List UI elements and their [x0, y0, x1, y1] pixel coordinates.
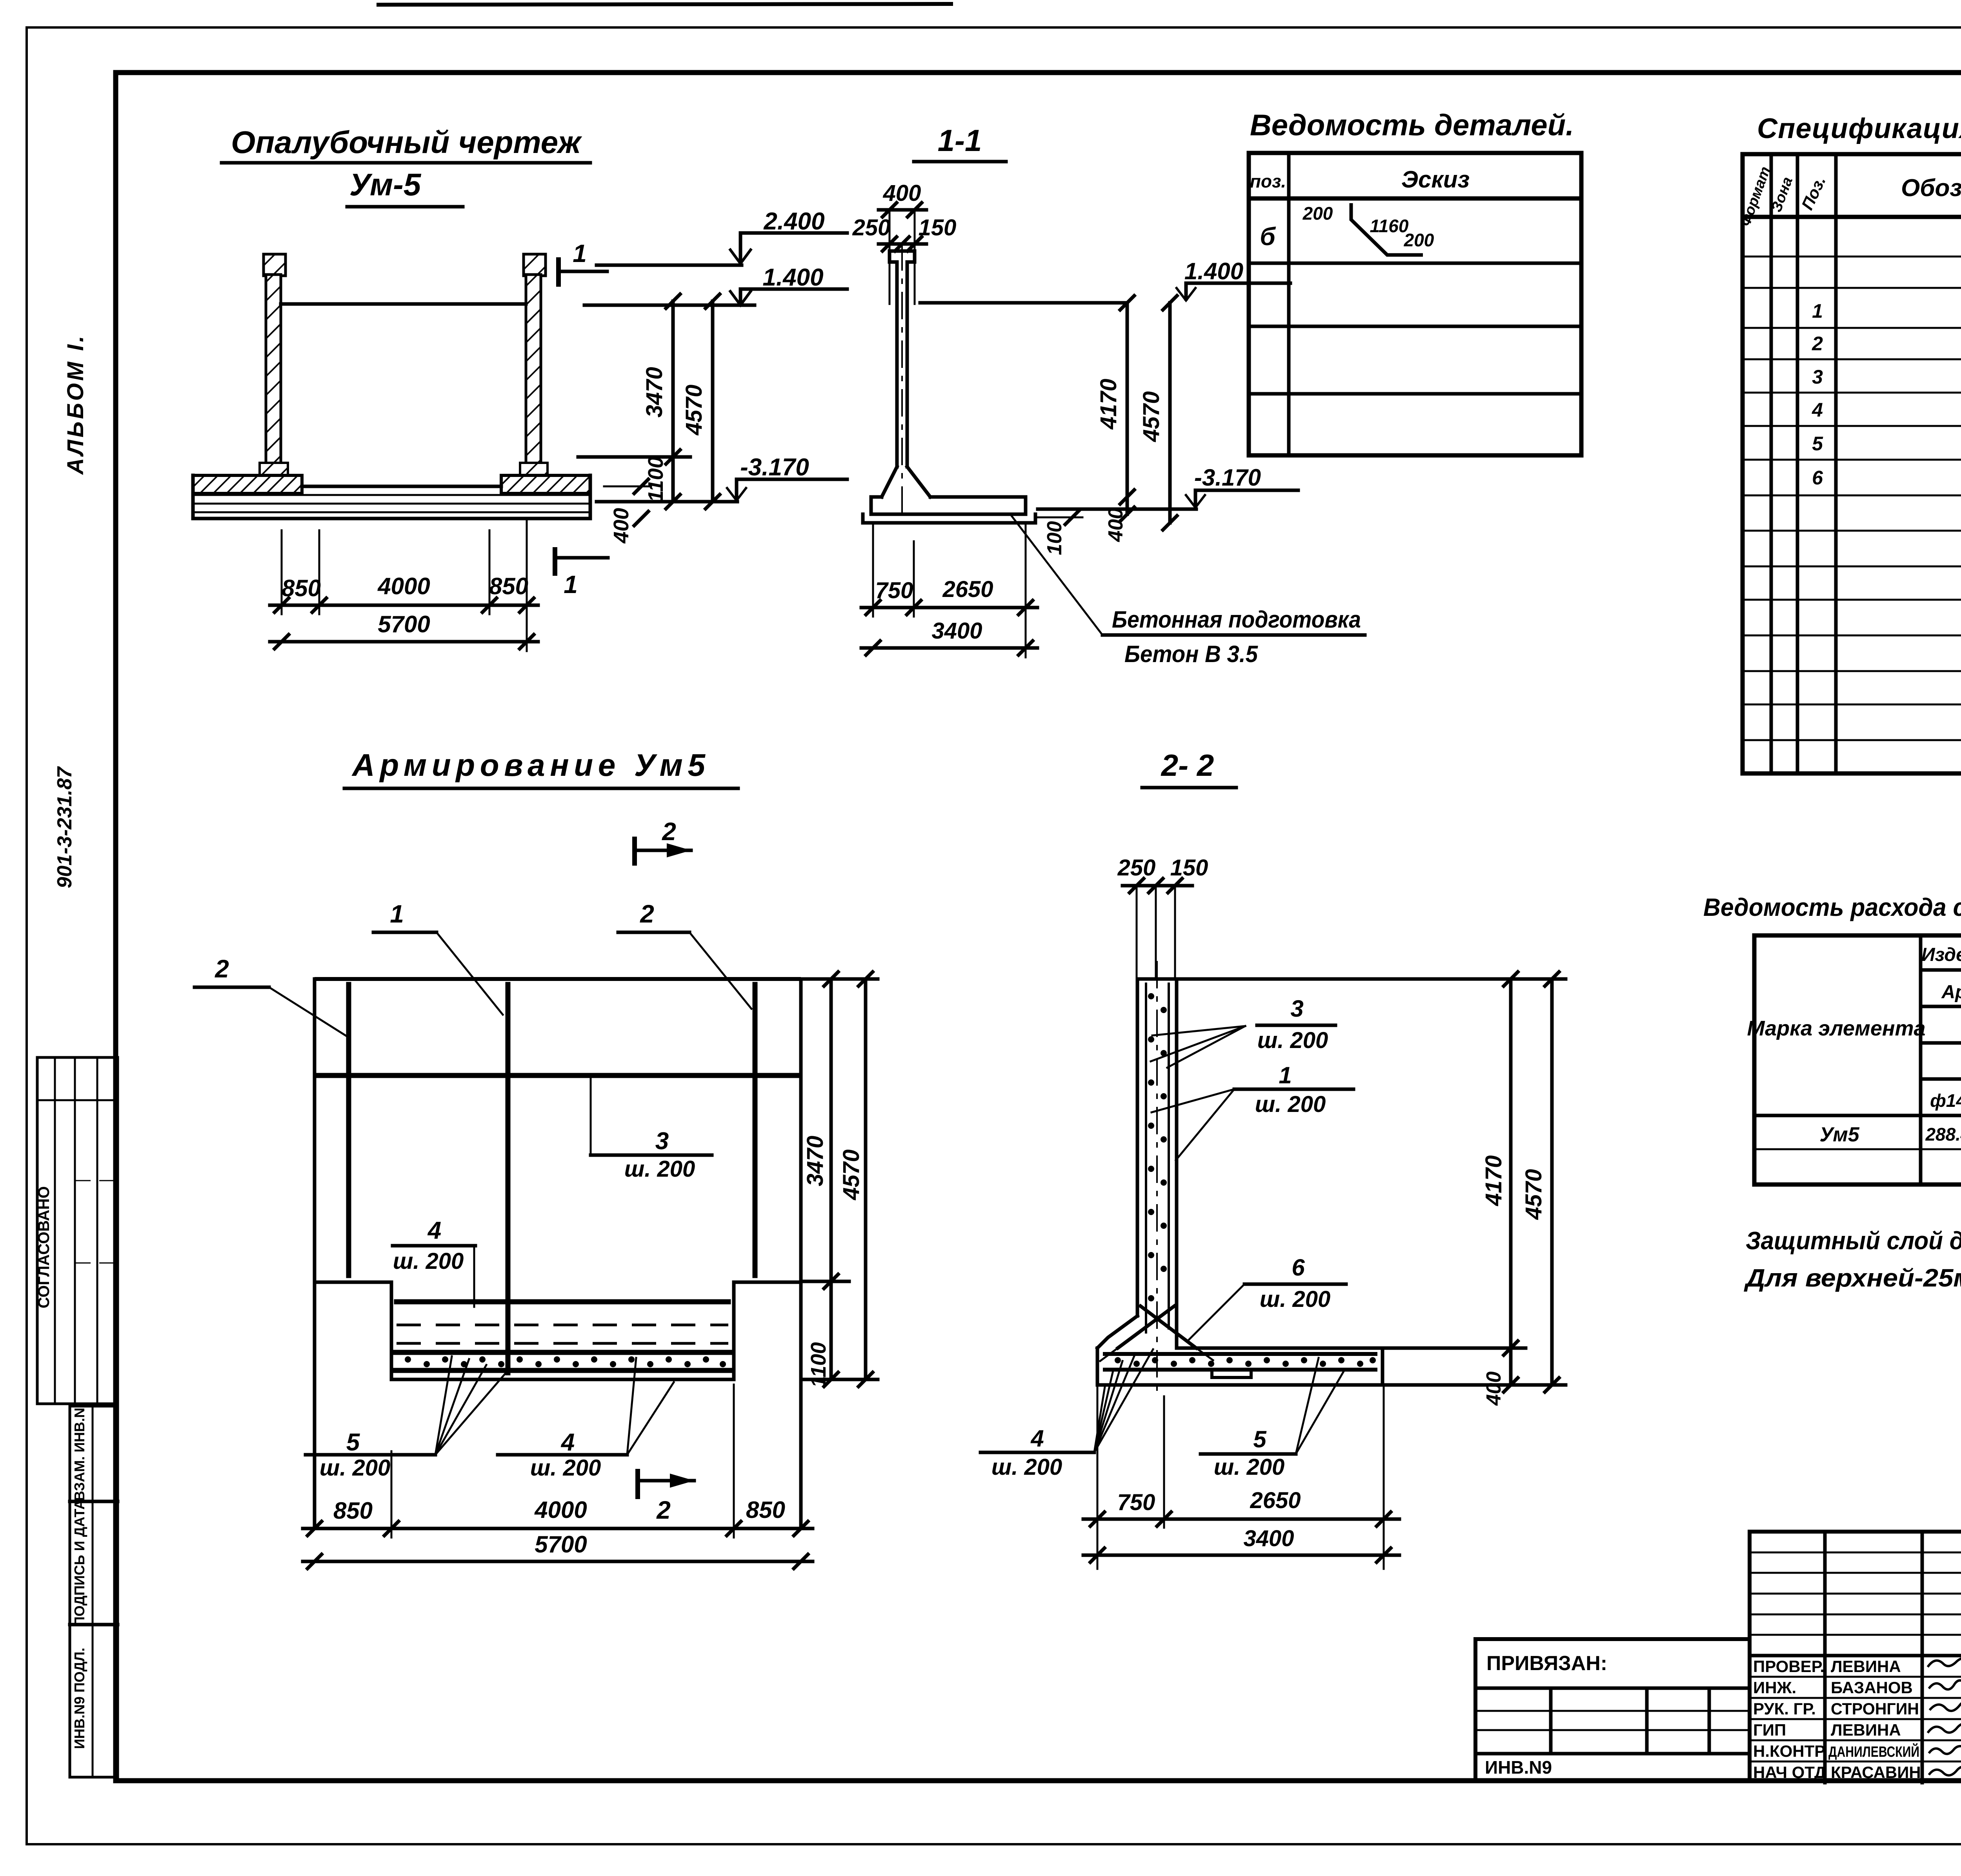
level line 1.400 (1-1): [920, 258, 1290, 303]
section 1-1 title: [914, 123, 1006, 162]
svg-text:4000: 4000: [377, 573, 430, 599]
label 4 sh.200 upper: [393, 1217, 475, 1307]
section mark 2 (bottom): [638, 1469, 694, 1524]
svg-text:288.4: 288.4: [1925, 1124, 1961, 1145]
svg-text:ш. 200: ш. 200: [393, 1248, 464, 1274]
signatures: [1928, 1656, 1961, 1775]
svg-text:ИНВ.N9 ПОДЛ.: ИНВ.N9 ПОДЛ.: [71, 1648, 87, 1749]
svg-text:4000: 4000: [534, 1497, 587, 1523]
plan dims 850 4000 850: [303, 1385, 813, 1538]
svg-text:5: 5: [1253, 1426, 1267, 1452]
plan dim 5700: [303, 1531, 813, 1568]
dim 750 2650 (1-1): [861, 523, 1037, 657]
svg-text:б: б: [1260, 222, 1276, 251]
svg-text:ПРИВЯЗАН:: ПРИВЯЗАН:: [1486, 1652, 1607, 1675]
svg-text:400: 400: [609, 508, 633, 544]
svg-text:400: 400: [1104, 508, 1127, 542]
bottom dims 750 2650 3400 (2-2): [1083, 1385, 1399, 1569]
vedomost detaley table: [1249, 153, 1581, 455]
right dims 4170 4570 400 (2-2): [1180, 972, 1566, 1406]
horizontal rebar pos3: [318, 1073, 797, 1078]
svg-text:250: 250: [1117, 855, 1156, 881]
svg-text:Н.КОНТР: Н.КОНТР: [1753, 1742, 1825, 1760]
svg-text:ИНВ.N9: ИНВ.N9: [1485, 1757, 1552, 1778]
svg-text:1160: 1160: [1370, 216, 1409, 236]
svg-text:2- 2: 2- 2: [1161, 748, 1214, 782]
svg-text:5700: 5700: [535, 1531, 587, 1558]
svg-text:Эскиз: Эскиз: [1401, 166, 1470, 193]
dim 400 (wall top): [879, 180, 926, 217]
svg-text:ш. 200: ш. 200: [320, 1455, 391, 1481]
svg-text:поз.: поз.: [1250, 171, 1286, 191]
svg-text:400: 400: [883, 180, 921, 206]
section 2-2 title: [1142, 748, 1236, 788]
svg-text:100: 100: [1043, 521, 1066, 555]
svg-text:ш. 200: ш. 200: [1257, 1028, 1328, 1053]
svg-text:3400: 3400: [1243, 1526, 1294, 1551]
wall top connecting line (level 1.400): [281, 302, 526, 306]
vertical dim 4570 (1-1): [1139, 296, 1177, 530]
svg-text:2: 2: [640, 900, 654, 928]
vertical dim 3470 / 1100: [578, 294, 690, 509]
approvals table: [1750, 1532, 1961, 1783]
svg-text:4570: 4570: [839, 1149, 864, 1200]
dim 3400 (1-1): [861, 618, 1037, 655]
svg-text:4570: 4570: [681, 384, 707, 435]
label 6 sh.200 (2-2): [1189, 1254, 1346, 1339]
svg-text:2.400: 2.400: [763, 208, 824, 235]
svg-text:4170: 4170: [1096, 378, 1121, 429]
wall base cross bars pos6: [1100, 1306, 1213, 1361]
svg-text:400: 400: [1483, 1372, 1505, 1406]
svg-text:2: 2: [215, 955, 229, 983]
svg-text:5: 5: [1812, 433, 1823, 455]
svg-text:2: 2: [662, 817, 676, 846]
svg-text:Ведомость расхода стали на оди: Ведомость расхода стали на один элемент,…: [1703, 893, 1961, 921]
svg-text:850: 850: [333, 1498, 373, 1524]
svg-text:4170: 4170: [1481, 1155, 1506, 1206]
svg-text:2: 2: [1812, 333, 1823, 355]
svg-text:Опалубочный чертеж: Опалубочный чертеж: [231, 125, 582, 160]
svg-text:4570: 4570: [1139, 391, 1164, 442]
wall rebars with dots (2-2): [1146, 983, 1169, 1334]
svg-text:4: 4: [1812, 399, 1823, 421]
svg-text:ш. 200: ш. 200: [1214, 1454, 1285, 1480]
plan outline: [315, 979, 801, 1528]
svg-text:200: 200: [1302, 203, 1333, 224]
approvals text: [1753, 1657, 1921, 1781]
specification table: [1743, 154, 1961, 773]
svg-text:1.400: 1.400: [762, 264, 823, 291]
svg-text:1: 1: [564, 570, 578, 599]
svg-text:ГИП: ГИП: [1753, 1721, 1786, 1739]
elevation -3.170: [597, 454, 847, 502]
formwork drawing title: [222, 125, 590, 207]
svg-text:БАЗАНОВ: БАЗАНОВ: [1831, 1678, 1913, 1697]
svg-text:Марка элемента: Марка элемента: [1747, 1017, 1925, 1040]
slab bottom bars with dots: [394, 1352, 729, 1370]
soglasovano stamp table: [35, 1057, 118, 1404]
reinforcement plan title: [344, 748, 738, 788]
dim 250 150: [852, 210, 957, 304]
svg-text:3: 3: [655, 1128, 669, 1155]
svg-text:6: 6: [1812, 467, 1823, 489]
level line -3.170 (1-1): [1038, 464, 1298, 509]
callout concrete preparation: [1011, 516, 1365, 667]
plan right dim 4570: [839, 972, 873, 1387]
svg-text:1-1: 1-1: [938, 123, 982, 158]
label 5 sh.200 lower left: [306, 1356, 506, 1481]
svg-text:3400: 3400: [931, 618, 982, 644]
scan edge artifact top: [377, 4, 953, 5]
svg-text:ш. 200: ш. 200: [991, 1454, 1062, 1480]
slab dashed bars: [397, 1324, 728, 1326]
svg-text:ЛЕВИНА: ЛЕВИНА: [1831, 1657, 1901, 1676]
foundation 1-1: [863, 467, 1035, 523]
svg-text:ИНЖ.: ИНЖ.: [1753, 1678, 1796, 1697]
elevation 2.400: [597, 208, 847, 265]
plan right dims 3470 1100: [802, 972, 878, 1388]
vertical dim 4570: [681, 294, 720, 509]
svg-text:2650: 2650: [1250, 1488, 1301, 1513]
svg-text:ПРОВЕР.: ПРОВЕР.: [1753, 1657, 1825, 1676]
dimension 850 4000 850: [270, 519, 538, 651]
svg-text:1: 1: [573, 239, 587, 267]
svg-text:ш. 200: ш. 200: [1255, 1092, 1326, 1117]
wall 2-2: [1137, 961, 1177, 1396]
foundation bars with dots (2-2): [1103, 1354, 1377, 1377]
svg-text:4: 4: [1030, 1425, 1044, 1452]
svg-text:5700: 5700: [378, 611, 430, 637]
svg-text:Спецификация к монолитному уча: Спецификация к монолитному участку УМ5.: [1757, 113, 1961, 144]
svg-text:1: 1: [390, 900, 404, 928]
right wall (hatched): [520, 254, 548, 475]
leader 2 (left bar): [195, 955, 349, 1037]
svg-text:250: 250: [852, 215, 891, 240]
svg-text:4: 4: [560, 1429, 575, 1456]
svg-text:Бетон В 3.5: Бетон В 3.5: [1124, 641, 1259, 667]
dim 400 (slab depth): [604, 479, 651, 544]
spec rows: [1812, 228, 1961, 632]
svg-text:ВЗАМ. ИНВ.N: ВЗАМ. ИНВ.N: [71, 1408, 87, 1501]
elevation 1.400: [584, 264, 847, 305]
svg-text:КРАСАВИН: КРАСАВИН: [1831, 1763, 1921, 1781]
svg-text:1.400: 1.400: [1184, 258, 1243, 284]
label 4 sh.200 lower mid: [498, 1358, 674, 1481]
svg-text:3: 3: [1812, 366, 1823, 388]
section mark 1 (bottom): [555, 547, 608, 599]
svg-text:2650: 2650: [942, 577, 993, 602]
foundation 2-2: [1097, 1316, 1383, 1385]
svg-text:Обозначение: Обозначение: [1901, 175, 1961, 202]
svg-text:Арматура класса: Арматура класса: [1941, 982, 1961, 1003]
svg-text:Для верхней-25мм.: Для верхней-25мм.: [1744, 1264, 1961, 1292]
svg-text:3470: 3470: [802, 1135, 828, 1186]
svg-text:ДАНИЛЕВСКИЙ: ДАНИЛЕВСКИЙ: [1828, 1743, 1919, 1760]
svg-text:ф14: ф14: [1930, 1090, 1961, 1111]
svg-text:850: 850: [746, 1497, 785, 1523]
label 4 sh.200 (2-2 left): [980, 1349, 1153, 1480]
svg-text:Защитный слой для нижней а: Защитный слой для нижней арматуры-35мм,: [1746, 1226, 1961, 1255]
svg-text:901-3-231.87: 901-3-231.87: [53, 766, 76, 888]
svg-text:Ведомость деталей.: Ведомость деталей.: [1250, 109, 1574, 142]
svg-text:150: 150: [919, 215, 957, 240]
svg-text:-3.170: -3.170: [740, 454, 809, 481]
label 3 sh.200: [591, 1075, 712, 1182]
svg-text:1100: 1100: [807, 1342, 830, 1388]
privyazan box: [1475, 1639, 1750, 1781]
svg-text:750: 750: [1117, 1490, 1155, 1515]
svg-text:-3.170: -3.170: [1194, 464, 1261, 491]
svg-text:1: 1: [1812, 300, 1823, 322]
svg-text:3470: 3470: [642, 367, 667, 417]
svg-text:4570: 4570: [1521, 1169, 1546, 1220]
svg-text:Ум5: Ум5: [1819, 1123, 1859, 1146]
svg-text:Бетонная подготовка: Бетонная подготовка: [1112, 606, 1361, 633]
svg-text:4: 4: [427, 1217, 441, 1244]
svg-text:150: 150: [1170, 855, 1208, 881]
vertical rebar pos1 middle: [506, 984, 511, 1373]
svg-text:6: 6: [1292, 1254, 1305, 1281]
section mark 1 (top): [558, 239, 607, 287]
inv strip table: [70, 1406, 118, 1777]
svg-text:850: 850: [282, 575, 321, 601]
leader 2 (right bar): [618, 900, 751, 1009]
svg-text:НАЧ ОТД: НАЧ ОТД: [1753, 1763, 1826, 1781]
protective layer note: [1744, 1226, 1961, 1292]
svg-text:5: 5: [346, 1429, 360, 1456]
dimension 5700: [270, 611, 538, 649]
svg-text:РУК. ГР.: РУК. ГР.: [1753, 1699, 1816, 1718]
vertical rebar pos2 right: [753, 984, 758, 1276]
vertical rebar pos2 left: [346, 984, 351, 1276]
left wall (hatched): [260, 254, 288, 475]
svg-text:ш. 200: ш. 200: [1260, 1286, 1331, 1312]
svg-text:ПОДПИСЬ И ДАТА: ПОДПИСЬ И ДАТА: [71, 1499, 87, 1627]
label 3 sh.200 (2-2): [1151, 995, 1335, 1068]
svg-text:2: 2: [656, 1496, 671, 1524]
svg-text:Изделия арматурные: Изделия арматурные: [1921, 944, 1961, 965]
svg-text:СТРОНГИН: СТРОНГИН: [1831, 1699, 1919, 1718]
concrete prep strip: [861, 514, 865, 523]
svg-text:850: 850: [489, 573, 528, 599]
slab top bar pos4: [397, 1299, 728, 1305]
vertical dim 4170 (1-1): [1096, 296, 1134, 542]
svg-text:АЛЬБОМ I.: АЛЬБОМ I.: [63, 333, 88, 475]
svg-text:ЛЕВИНА: ЛЕВИНА: [1831, 1721, 1901, 1739]
dim 100 (prep thickness): [1038, 510, 1082, 555]
spec header labels: [1737, 164, 1961, 228]
svg-text:ш. 200: ш. 200: [530, 1455, 601, 1481]
svg-text:ш. 200: ш. 200: [624, 1156, 695, 1182]
section mark 2 (top): [635, 817, 691, 866]
label 5 sh.200 (2-2): [1201, 1358, 1343, 1480]
svg-text:СОГЛАСОВАНО: СОГЛАСОВАНО: [35, 1186, 53, 1308]
svg-text:Ум-5: Ум-5: [349, 167, 422, 202]
base slab: [193, 475, 590, 519]
svg-text:750: 750: [875, 578, 913, 603]
leader 1 (mid bar): [373, 900, 503, 1015]
dim 250 150 (2-2): [1117, 855, 1208, 979]
steel consumption table: [1747, 935, 1961, 1185]
svg-text:3: 3: [1290, 995, 1303, 1022]
svg-text:Армирование Ум5: Армирование Ум5: [351, 748, 706, 782]
wall profile 1-1: [890, 243, 915, 522]
svg-text:1: 1: [1279, 1062, 1292, 1088]
svg-text:200: 200: [1404, 230, 1434, 250]
label 1 sh.200 (2-2): [1151, 1062, 1353, 1160]
